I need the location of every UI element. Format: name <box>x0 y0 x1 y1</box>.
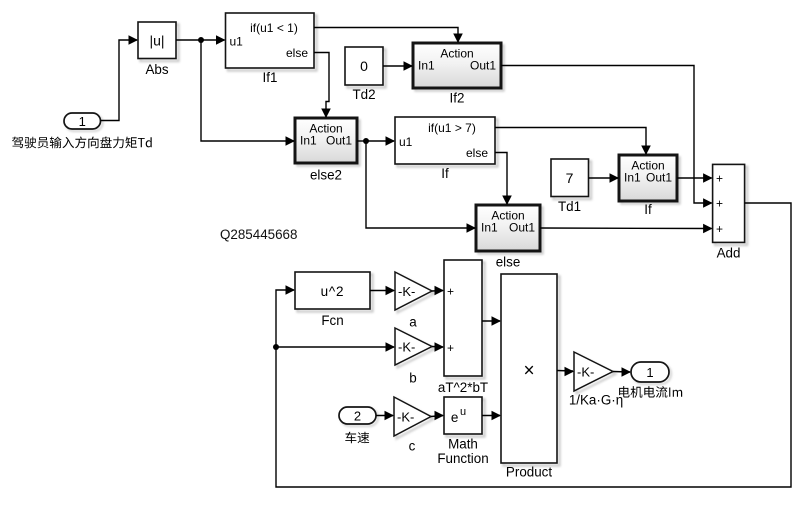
block Add <box>713 164 748 260</box>
wire Abs out to junction <box>176 39 201 41</box>
wire gain b to sum <box>432 342 444 352</box>
wire If-action Out1 to Add in1 <box>677 173 713 183</box>
svg-text:+: + <box>447 285 454 299</box>
svg-text:-K-: -K- <box>398 284 415 299</box>
svg-text:Q285445668: Q285445668 <box>220 227 297 242</box>
block If1 <box>226 13 317 85</box>
text Q285445668 <box>220 227 297 242</box>
svg-text:e: e <box>451 410 459 425</box>
svg-text:if(u1 < 1): if(u1 < 1) <box>250 21 298 35</box>
label 车速 <box>345 432 369 444</box>
svg-text:If: If <box>441 166 449 181</box>
wire Td1 to If-action In1 <box>589 173 620 183</box>
svg-text:+: + <box>716 197 723 211</box>
wire junction A to If1 u1 <box>201 35 226 45</box>
wire junction B down to else In1 <box>366 141 476 233</box>
action block else <box>476 205 543 270</box>
svg-text:If2: If2 <box>450 91 465 106</box>
block Math Function (e^u) <box>437 397 488 466</box>
junction C (feedback to gain b) <box>273 344 279 350</box>
svg-text:2: 2 <box>354 409 361 424</box>
svg-text:7: 7 <box>566 170 574 186</box>
svg-text:Action: Action <box>440 47 473 61</box>
wire gain to outport <box>613 367 631 377</box>
block Product <box>501 274 560 480</box>
wire gain c to Math <box>431 411 444 421</box>
svg-text:In1: In1 <box>300 134 317 148</box>
svg-text:-K-: -K- <box>397 410 414 425</box>
wire sum out to Product in1 <box>482 316 501 326</box>
action block else2 <box>295 118 360 183</box>
inport 2 (vehicle speed) <box>339 407 378 426</box>
wire Product out to gain <box>557 367 574 377</box>
wire If if-out to If-action top <box>495 128 651 156</box>
svg-text:0: 0 <box>360 58 368 74</box>
svg-text:1: 1 <box>646 365 653 380</box>
wire else2 Out1 to junction <box>357 140 366 142</box>
svg-text:else: else <box>496 255 521 270</box>
svg-text:×: × <box>523 361 534 382</box>
block Fcn (u^2) <box>295 272 373 328</box>
svg-text:1/Ka·G·η: 1/Ka·G·η <box>569 393 623 408</box>
wire junction A down to else2 In1 <box>201 40 295 146</box>
svg-text:|u|: |u| <box>149 33 164 49</box>
label 电机电流Im <box>619 386 682 398</box>
svg-text:1: 1 <box>79 114 86 129</box>
gain c <box>394 397 434 454</box>
wire If1 if-out to If2 top <box>314 28 463 44</box>
svg-text:Add: Add <box>717 246 741 261</box>
svg-text:Td2: Td2 <box>352 87 375 102</box>
wire Td2 to If2 In1 <box>383 61 413 71</box>
svg-text:if(u1 > 7): if(u1 > 7) <box>428 121 476 135</box>
wire If2 Out1 to Add in2 <box>501 66 713 208</box>
svg-text:Fcn: Fcn <box>321 313 343 328</box>
svg-text:+: + <box>716 222 723 236</box>
svg-text:c: c <box>409 439 416 454</box>
wire Math out to Product in2 <box>482 411 501 421</box>
block Td1 (constant 7) <box>551 159 591 214</box>
svg-text:Function: Function <box>437 451 488 466</box>
svg-text:Out1: Out1 <box>509 221 535 235</box>
wire junction C to gain b <box>276 342 395 352</box>
gain 1/Ka-G-eta <box>569 352 623 408</box>
wire Add out feedback loop <box>276 203 791 487</box>
svg-text:u1: u1 <box>230 35 244 49</box>
label 驾驶员输入方向盘力矩Td <box>12 137 152 149</box>
block aT^2*bT (sum) <box>438 260 488 395</box>
inport 1 (driver torque input) <box>64 113 103 131</box>
gain a <box>395 272 435 330</box>
svg-text:u: u <box>460 406 466 418</box>
svg-text:-K-: -K- <box>577 365 594 380</box>
outport 1 (motor current Im) <box>631 362 671 384</box>
block Td2 (constant 0) <box>345 47 386 102</box>
svg-text:else: else <box>286 46 308 60</box>
svg-text:aT^2*bT: aT^2*bT <box>438 380 488 395</box>
svg-text:In1: In1 <box>418 59 435 73</box>
wire gain a to sum <box>432 286 444 296</box>
wire If1 else-out to else2 top <box>314 53 331 119</box>
wire inport2 to gain c <box>376 411 394 421</box>
svg-text:u^2: u^2 <box>321 284 345 299</box>
svg-text:Out1: Out1 <box>646 171 672 185</box>
svg-text:u1: u1 <box>399 135 413 149</box>
wire If else-out to else top <box>495 153 512 206</box>
wire inport1 to Abs <box>101 35 139 120</box>
svg-text:else: else <box>466 146 488 160</box>
svg-text:else2: else2 <box>310 168 342 183</box>
svg-text:b: b <box>409 371 416 386</box>
svg-text:In1: In1 <box>481 221 498 235</box>
wire Fcn out to gain a <box>370 286 395 296</box>
svg-text:Out1: Out1 <box>326 134 352 148</box>
junction B (else2 output) <box>363 138 369 144</box>
action block If (small) <box>619 155 680 217</box>
svg-text:Out1: Out1 <box>470 59 496 73</box>
svg-text:Td1: Td1 <box>558 199 581 214</box>
svg-text:Product: Product <box>506 465 552 480</box>
wire junction B to If u1 <box>366 136 395 146</box>
svg-text:In1: In1 <box>624 171 641 185</box>
svg-text:If: If <box>644 202 652 217</box>
svg-text:a: a <box>409 315 417 330</box>
svg-text:If1: If1 <box>263 70 278 85</box>
block Abs <box>138 22 179 77</box>
svg-text:-K-: -K- <box>398 340 415 355</box>
svg-text:+: + <box>716 172 723 186</box>
gain b <box>395 328 435 386</box>
svg-text:Abs: Abs <box>145 62 168 77</box>
block If <box>395 117 498 181</box>
svg-text:Math: Math <box>448 437 478 452</box>
wire else Out1 to Add in3 <box>540 224 713 234</box>
svg-text:+: + <box>447 341 454 355</box>
junction A (Abs output) <box>198 37 204 43</box>
action block If2 <box>413 43 504 106</box>
